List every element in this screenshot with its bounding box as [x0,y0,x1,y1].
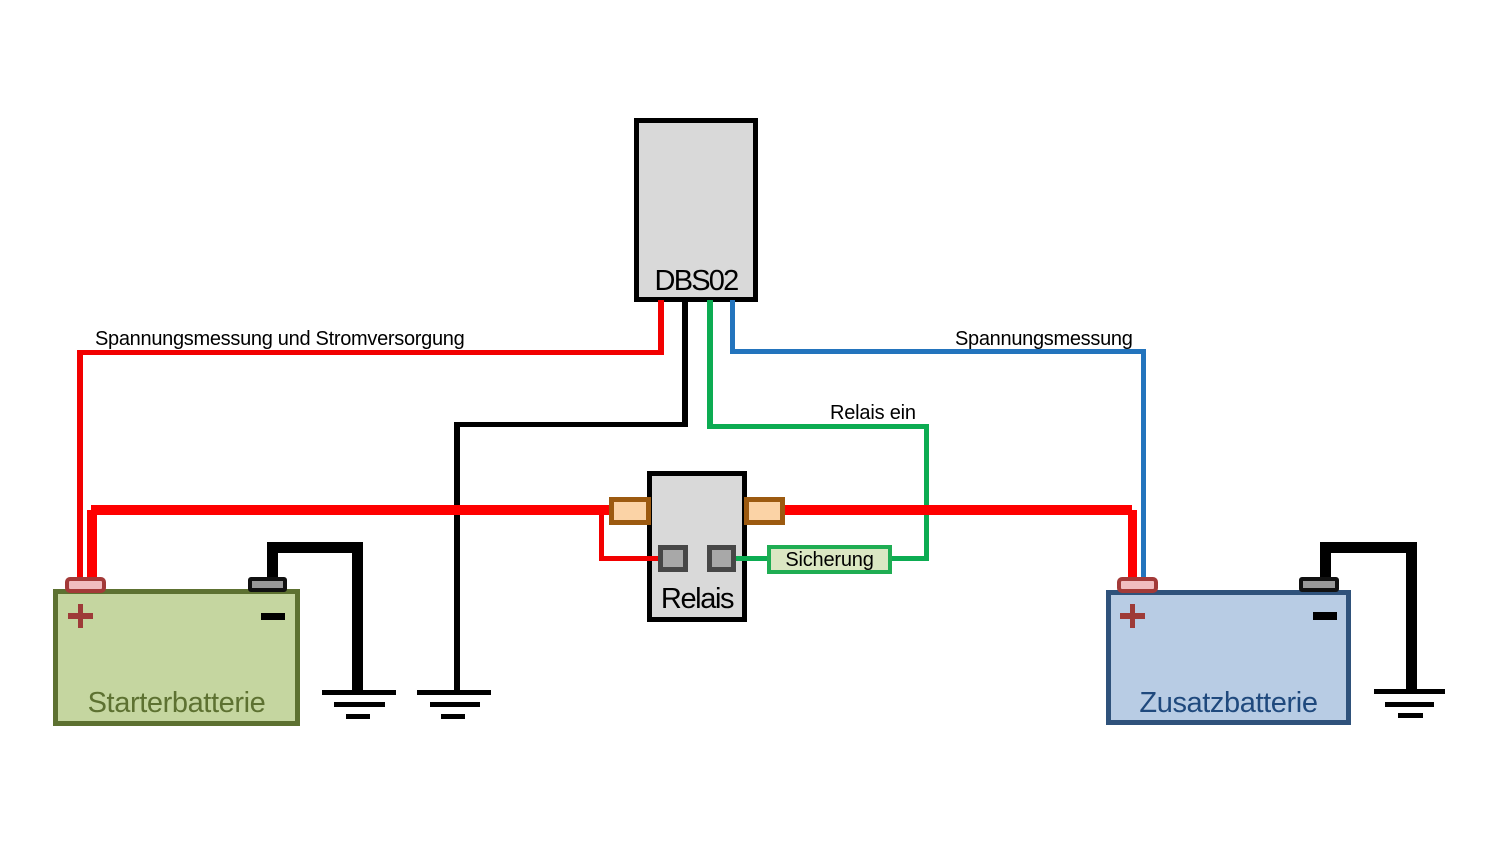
plus sign starter battery [68,613,93,619]
minus sign aux battery [1313,612,1337,620]
wire thin red horizontal measurement [77,350,664,355]
wire black DBS02 pin down [682,300,688,427]
wire green vertical down to fuse level [924,424,929,561]
plus sign aux battery [1120,613,1145,619]
wire thin red DBS02 pin down [658,300,664,355]
label Zusatzbatterie [1106,687,1351,720]
label Relais [647,583,747,616]
wire thin red relay coil vertical [599,510,604,560]
wire green DBS02 pin down [707,300,713,429]
wire green fuse right stub [892,556,929,561]
auxiliary battery body BT2 [1106,590,1351,725]
starter battery body BT1 [53,589,300,726]
ground symbol aux battery [1374,689,1445,695]
relay terminal lug left [609,497,651,525]
wire thin red vertical to starter battery plus [77,350,83,584]
wire thick black aux horizontal [1320,542,1417,553]
wire blue vertical to aux battery plus [1141,349,1146,587]
ground symbol DBS02 black wire [417,690,491,696]
label Starterbatterie [53,687,300,720]
wire thick red vertical to starter battery plus [87,510,97,583]
wire thick black starter down to ground [352,542,363,693]
label Spannungsmessung und Stromversorgung [95,328,464,351]
label Spannungsmessung [955,328,1133,351]
wire thick red vertical to aux battery plus [1128,510,1137,582]
wire thick black starter battery minus up [267,542,278,582]
wire thick red power left [91,505,618,515]
wire thick red power right [744,505,1132,515]
wire thin red relay coil horizontal [599,556,663,561]
wire thick black aux down to ground [1406,542,1417,693]
relay terminal lug right [744,497,785,525]
starter battery positive terminal [65,577,106,593]
auxiliary battery negative terminal [1299,577,1339,592]
wire green fuse to relay pin [734,556,768,561]
wire green horizontal Relais ein [708,424,930,429]
ground symbol starter battery [322,690,396,696]
wire black horizontal [454,422,688,428]
label Relais ein [830,402,916,425]
starter battery negative terminal [248,577,287,592]
fuse Sicherung box F1 [767,545,893,574]
relay coil pin left [658,545,688,573]
wire thick black aux battery minus up [1320,542,1331,582]
wire thick black starter horizontal [267,542,363,553]
wire black vertical to ground [454,422,460,693]
DBS02 controller box U1 [634,118,758,302]
minus sign starter battery [261,613,285,621]
auxiliary battery positive terminal [1117,577,1158,593]
relay coil pin right [707,545,736,573]
wire blue DBS02 pin down [730,300,735,354]
relay body K1 [647,471,747,622]
label DBS02 [634,265,758,298]
wire blue horizontal Spannungsmessung [730,349,1146,354]
label Sicherung [767,549,892,572]
